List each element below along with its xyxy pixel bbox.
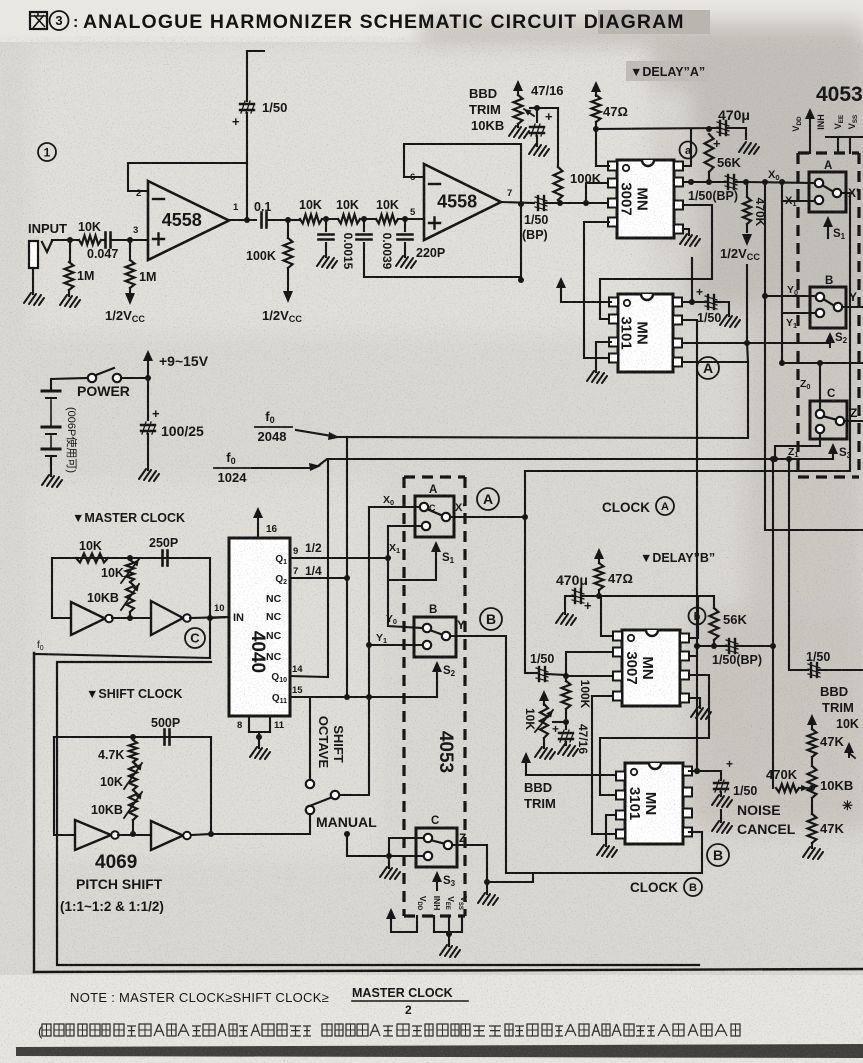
- resistor 47ohm A: [595, 92, 597, 95]
- node delay B out: [694, 643, 700, 649]
- wire feedback op1: [128, 163, 247, 191]
- ground 47/16 B: [558, 744, 578, 756]
- circled B near MN3101B: [707, 844, 729, 866]
- circled b marker: [689, 608, 706, 625]
- dashed box 4053 middle: [404, 477, 465, 916]
- wire MN3007B out pin: [689, 646, 697, 656]
- arrow +9-15V: [147, 364, 149, 378]
- wire pin3 input: [130, 239, 148, 241]
- wire arrow f0/1024: [252, 467, 312, 469]
- wire signal ladder: [288, 219, 300, 221]
- wire octave riser x369: [340, 507, 369, 795]
- node 100K bottom: [565, 709, 567, 722]
- potentiometer 10KB NC: [811, 757, 813, 766]
- switch box C right: [810, 401, 847, 439]
- wire S3 arrow middle: [432, 871, 442, 882]
- wire right bbd trim line: [789, 459, 808, 670]
- wire pot to output: [129, 612, 131, 618]
- resistor 1M to half Vcc: [129, 240, 131, 260]
- wire Y output clock B path: [450, 636, 702, 873]
- capacitor 250P: [161, 551, 164, 566]
- wire MN3101A pin2right clock vertical: [683, 320, 697, 771]
- title figure mark 図3: [30, 12, 47, 29]
- wire MN3007A pin1 to supply: [596, 129, 609, 166]
- wire shift pot bottom: [132, 820, 134, 834]
- node ladder1: [323, 216, 329, 222]
- circled A near MN3101A: [697, 357, 719, 379]
- capacitor 0.047: [101, 239, 104, 241]
- dashed box 4053 right: [798, 153, 859, 477]
- bottom dark bar: [16, 1044, 863, 1058]
- wire Q1 riser: [387, 526, 389, 558]
- wire X0 into box: [369, 506, 420, 508]
- input jack J1: [29, 241, 38, 268]
- wire inv4 output: [191, 834, 211, 835]
- node delay B input: [563, 673, 569, 679]
- wire MN3007A out pins to line: [683, 181, 709, 183]
- ground 220P: [396, 256, 416, 268]
- wire octave riser x310: [309, 697, 311, 780]
- resistor 10K ladder2: [338, 215, 360, 224]
- wire to 100K trim: [557, 108, 559, 167]
- wire S2 arrow right: [825, 332, 835, 343]
- wire Z output: [452, 845, 533, 882]
- inverter U4d: [151, 821, 183, 850]
- resistor 100K to half Vcc: [287, 220, 289, 238]
- wire Y0 riser: [388, 558, 422, 628]
- svg-text::: :: [73, 14, 78, 31]
- op-amp U1a 4558: [148, 181, 229, 260]
- capacitor 100/25: [147, 378, 149, 420]
- wire X' out right: [841, 192, 850, 194]
- ground 470u B: [556, 613, 576, 625]
- wire middle 4053 Vdd stub: [391, 916, 417, 932]
- wire MN3007B pin4 loop: [592, 696, 615, 834]
- title text: [598, 10, 710, 34]
- potentiometer 10K master: [126, 560, 134, 582]
- wire inv2 output: [190, 617, 229, 618]
- ground 4040: [250, 747, 270, 759]
- ground 1M: [60, 295, 80, 307]
- wire master left rail: [52, 558, 71, 618]
- arrow BBD TRIM B: [521, 752, 531, 763]
- wire inv3 to inv4: [118, 834, 151, 836]
- arrow V+ 47ohm B: [594, 548, 604, 559]
- ground middle 4053: [440, 945, 460, 957]
- switch box B middle: [414, 617, 456, 657]
- IC U6 MN3007 delay B: [622, 630, 680, 706]
- capacitor 1/50 clockB: [720, 771, 722, 780]
- svg-text:ANALOGUE HARMONIZER SCHEMATI: ANALOGUE HARMONIZER SCHEMATIC CIRCUIT DI…: [83, 11, 685, 33]
- wire Q10 output: [290, 459, 328, 677]
- arrow V+ pot A: [513, 80, 523, 91]
- switch box A middle: [415, 496, 454, 537]
- wire op1 output: [229, 219, 256, 221]
- pins 8 11 bottom: [248, 716, 250, 732]
- ground pot B: [535, 747, 555, 759]
- small arrow NC: [844, 742, 854, 753]
- wire master clock top rail: [52, 557, 210, 559]
- inverter U4c: [75, 820, 111, 850]
- wire S1 arrow right: [823, 216, 833, 227]
- wire MN3101A pin1right cap: [683, 301, 707, 303]
- wire MN3101A pin3right S2 line: [683, 342, 830, 344]
- wire wiper node A: [535, 107, 558, 109]
- circled C marker: [185, 628, 205, 648]
- ground NC: [803, 847, 823, 859]
- op-amp U1b 4558: [424, 164, 501, 240]
- capacitor 1/50BP out A: [709, 181, 726, 183]
- node 47ohm A: [593, 126, 599, 132]
- wire op2 output node: [501, 202, 534, 203]
- capacitor 1/50 BP series: [537, 196, 539, 210]
- wire ladder bottom rail: [364, 276, 521, 278]
- wire MN3007B pin3right down: [600, 675, 709, 795]
- resistor 47ohm B: [598, 560, 600, 563]
- switch POWER: [88, 374, 96, 382]
- node master pot top: [127, 555, 133, 561]
- op-amp U1a plus sign: [153, 234, 164, 245]
- resistor 1M input: [65, 262, 74, 290]
- pin16 stub and arrow: [257, 519, 259, 538]
- resistor 100K B: [565, 676, 567, 681]
- wire gnd spur to manual line: [347, 834, 389, 856]
- wire Q1 output: [290, 557, 388, 559]
- wire feedback op2: [404, 144, 521, 204]
- wire input node: [52, 239, 79, 241]
- capacitor 0.0039: [363, 219, 365, 231]
- schematic left border lower: [33, 653, 35, 972]
- capacitor 220P: [404, 219, 406, 231]
- op-amp U1b minus: [429, 183, 440, 185]
- switch box A right: [809, 172, 846, 212]
- arrow V+ 47ohm A: [591, 81, 601, 92]
- wire MN3007A topright to rail: [683, 129, 691, 166]
- wire MN3007B bottomright ground: [689, 698, 700, 708]
- resistor 56K B: [710, 608, 719, 640]
- potentiometer 10KB bbd trim A: [517, 92, 519, 95]
- ground 0.0015: [317, 256, 337, 268]
- wire MN3007A pin4 loop: [584, 222, 611, 358]
- battery 006P: [42, 390, 60, 393]
- op-amp U1b plus: [429, 218, 440, 229]
- ground battery: [42, 475, 62, 487]
- inverter U4a: [71, 602, 105, 635]
- resistor 4.7K shift: [129, 740, 137, 762]
- wire MN3101A pin3 ground: [596, 342, 611, 372]
- node ladder2: [361, 216, 367, 222]
- label DELAY A header: [626, 61, 710, 81]
- wire Z1 jog: [775, 433, 820, 459]
- wire Q11 output: [290, 696, 437, 698]
- capacitor 500P: [163, 730, 166, 745]
- wire op2 output down rail: [520, 204, 522, 281]
- switch box C middle: [416, 828, 457, 867]
- node after 0.1: [285, 217, 291, 223]
- ground 470u A: [739, 142, 759, 154]
- node 47 B: [596, 593, 602, 599]
- circled a marker: [680, 142, 697, 159]
- wire supply vertical with 1/50 cap: [247, 50, 264, 52]
- arrow to 1/2Vcc: [129, 288, 131, 292]
- ground MN3101B second: [720, 810, 722, 822]
- resistor 10K ladder3: [376, 215, 398, 224]
- ground 47/16: [529, 144, 549, 156]
- schematic bottom border: [34, 969, 863, 972]
- potentiometer 10K shift: [129, 762, 137, 790]
- node ladder3: [402, 216, 408, 222]
- wire master right rail: [209, 558, 211, 658]
- wire inv1 to inv2: [112, 617, 151, 619]
- wire supply rail B: [599, 596, 714, 608]
- arrow VDD right 4053: [805, 108, 815, 119]
- wire manual pole: [211, 814, 310, 834]
- capacitor 470u B: [583, 595, 599, 597]
- capacitor 0.1 series: [260, 213, 263, 228]
- wire shift top rail: [54, 736, 211, 738]
- arrow 470K down: [746, 224, 748, 232]
- wire Q2 output: [290, 577, 347, 579]
- ground pot A: [517, 124, 519, 127]
- wire Y0 down exit: [765, 296, 863, 530]
- wire MN3007B topright to rail: [689, 596, 698, 638]
- capacitor 47/16 electrolytic: [536, 108, 538, 122]
- wire X1 riser right: [782, 182, 815, 201]
- resistor 470K to half Vcc: [746, 182, 748, 197]
- node delay A input: [557, 200, 563, 206]
- wire Y out right: [842, 306, 863, 308]
- wire delay B out riser: [772, 459, 774, 788]
- wire X1 into box: [388, 525, 421, 527]
- IC U5 4040 counter: [229, 538, 290, 716]
- node pin3: [127, 237, 133, 243]
- potentiometer 10K bbd trim B: [539, 690, 549, 701]
- wire MN3101B pin3 ground: [606, 815, 615, 846]
- wire shift right rail: [210, 737, 212, 834]
- ground input jack: [24, 293, 44, 305]
- wire right 4053 supply stubs: [826, 136, 863, 138]
- wire Y1 into box: [369, 644, 422, 646]
- resistor 10K ladder1: [300, 215, 322, 224]
- wire delay A out to 4053: [746, 182, 815, 183]
- node 56K bottom: [706, 179, 712, 185]
- wire wiper B: [553, 721, 566, 723]
- wire S1 arrow: [431, 541, 441, 552]
- capacitor 1/50BP out B: [697, 645, 727, 647]
- potentiometer 10KB shift: [129, 790, 137, 820]
- node shift rc top: [130, 734, 136, 740]
- ground 100/25: [139, 469, 159, 481]
- wire S2 arrow middle: [432, 661, 442, 672]
- resistor 10K input series: [79, 236, 101, 245]
- circled 1 marker: [38, 143, 56, 161]
- wire S3 arrow right: [828, 443, 838, 454]
- inverter U4b: [151, 601, 183, 635]
- inner section box shift clock: [57, 662, 699, 965]
- resistor 100K trim A: [554, 167, 563, 200]
- potentiometer 10KB master: [126, 582, 134, 612]
- wire MN3101B bottomright clockB: [689, 831, 702, 833]
- resistor 10K master: [76, 554, 108, 563]
- capacitor 0.0015: [325, 219, 327, 231]
- wire MN3007B pin1 to supply: [601, 596, 612, 636]
- wire Z out right: [844, 420, 863, 422]
- wire MN3007A pin3right down: [600, 205, 712, 319]
- switch box B right: [810, 287, 846, 328]
- wire middle 4053 supply stubs: [433, 916, 435, 932]
- circled B middle: [480, 608, 502, 630]
- wire 470K lower segment: [746, 265, 748, 343]
- wire MN3101B pin1right cap: [689, 770, 721, 772]
- wire input to MN3007B pins: [566, 675, 612, 677]
- wire arrow f0/2048: [296, 430, 332, 436]
- arrow V+ NC: [807, 714, 817, 725]
- capacitor 470u A: [719, 121, 721, 135]
- arrow 100K to 1/2Vcc: [287, 268, 289, 290]
- node power: [145, 375, 151, 381]
- switch OCTAVE/MANUAL: [306, 780, 314, 788]
- wire supply rail A: [596, 128, 718, 129]
- capacitor 1/50 delay B input: [525, 672, 537, 674]
- IC U3 MN3101 clock A: [618, 294, 673, 372]
- wire shift left rail: [54, 737, 75, 835]
- wire X' output clock A path: [450, 516, 525, 518]
- wire MN3101A pin4right f0/2048 line: [347, 362, 748, 697]
- svg-text:3: 3: [55, 13, 62, 28]
- circled A middle: [477, 488, 499, 510]
- capacitor 1/50 clockA: [721, 302, 729, 316]
- wire input to MN3007A pins: [560, 202, 586, 204]
- IC U2 MN3007 delay A: [617, 160, 674, 238]
- wire 100K to node: [558, 200, 560, 203]
- arrow V+ MN3101A: [556, 277, 566, 288]
- IC U7 MN3101 clock B: [625, 763, 683, 844]
- capacitor 1/50 supply: [240, 103, 254, 105]
- op-amp U1a minus sign: [153, 198, 164, 200]
- wire Y0 feed: [765, 182, 815, 296]
- resistor 47K NC upper: [811, 725, 813, 729]
- capacitor 1/50 right: [810, 663, 812, 677]
- resistor 47K NC lower: [811, 798, 813, 814]
- wire Z0 Z1 ground middle: [389, 838, 423, 856]
- resistor 470K noise cancel: [776, 784, 799, 792]
- resistor 56K A: [705, 134, 714, 172]
- wire Z0 line: [782, 362, 863, 364]
- wire MN3007A bottomright ground: [683, 229, 689, 235]
